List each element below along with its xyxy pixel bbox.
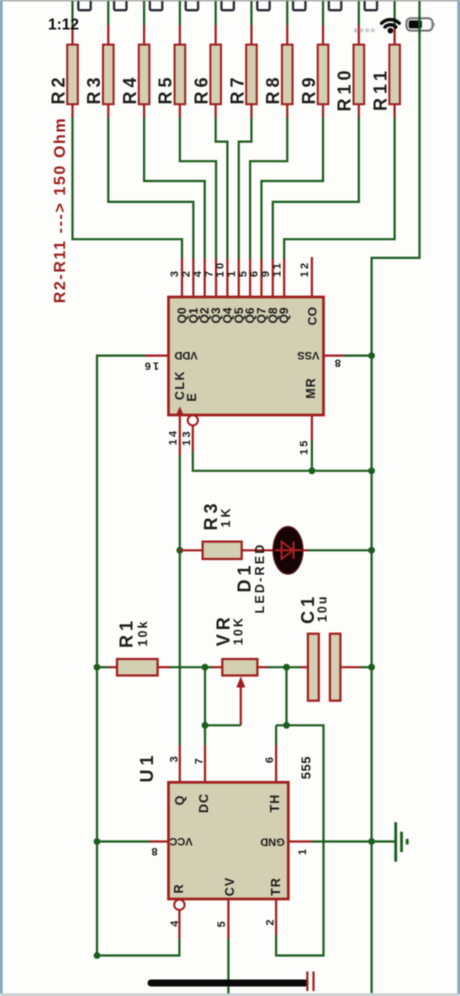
svg-text:R6: R6: [191, 73, 211, 104]
node left rail bottom: [94, 952, 101, 959]
svg-text:1: 1: [226, 269, 238, 277]
resistor R4: [120, 25, 150, 119]
resistor R2: [48, 25, 77, 119]
svg-text:5: 5: [237, 269, 249, 277]
pin Q8 stub (pin 9): [260, 259, 273, 298]
resistor R10: [335, 25, 365, 119]
node R1 VR DC junction: [202, 664, 209, 671]
wire LED6 to R6 top: [215, 0, 217, 26]
svg-text:CO: CO: [305, 307, 319, 326]
wire R1 to VR node: [170, 666, 205, 668]
resistor R6: [191, 25, 221, 119]
svg-text:6: 6: [249, 269, 261, 277]
wire VCC right rail: [372, 0, 420, 993]
wire VCC rail over battery: [418, 15, 420, 34]
ground: [372, 822, 408, 862]
pin Q1 stub (pin 2): [181, 259, 194, 298]
svg-text:R9: R9: [299, 73, 319, 104]
wire LED5 to R5 top: [179, 0, 181, 26]
svg-text:Q: Q: [173, 795, 187, 805]
svg-text:R2: R2: [48, 73, 68, 104]
terminal square T3: [114, 0, 126, 10]
wire LED10 to R10 top: [358, 0, 360, 26]
wire LED8 to R8 top: [286, 0, 288, 26]
wire R8 to Q6 pin: [250, 118, 287, 260]
svg-text:E: E: [185, 393, 199, 401]
svg-text:3: 3: [168, 756, 180, 762]
svg-text:10K: 10K: [231, 616, 245, 645]
svg-text:U1: U1: [137, 751, 157, 782]
pin TR 2 stub: [264, 899, 276, 935]
wire CLK to 555 Q: [179, 455, 181, 550]
resistor R7: [227, 25, 257, 119]
wire VR wiper to DC: [205, 724, 241, 726]
wire R5 to Q3 pin: [180, 118, 216, 260]
pin Q 3 stub: [168, 745, 180, 782]
resistor R9: [299, 25, 329, 119]
svg-text:R: R: [172, 884, 186, 893]
pin Q7 stub (pin 6): [249, 259, 262, 298]
wire E to MR to rail: [193, 452, 372, 471]
svg-text:R1: R1: [117, 617, 137, 648]
node wiper DC junction: [202, 722, 209, 729]
wire VCC to left rail: [97, 840, 150, 842]
node GND rail junction: [368, 838, 375, 845]
svg-text:16: 16: [142, 359, 159, 371]
svg-text:4: 4: [169, 920, 181, 927]
resistor R3 1K: [180, 499, 274, 559]
node left rail at VCC: [94, 838, 101, 845]
svg-text:3: 3: [169, 269, 181, 277]
status battery icon: [407, 18, 435, 30]
node E-MR rail junction: [368, 467, 375, 474]
wire R6 to Q4 pin: [216, 118, 228, 260]
svg-text:VCC: VCC: [169, 835, 192, 847]
pin Q9 stub (pin 11): [271, 259, 284, 298]
pin Q3 stub (pin 7): [203, 259, 216, 298]
svg-text:8: 8: [335, 356, 341, 368]
wire TH TR net: [276, 667, 323, 955]
svg-text:GND: GND: [260, 836, 285, 848]
pin E 13 bubble: [181, 415, 198, 453]
svg-text:4: 4: [192, 269, 204, 277]
pin CLK 14 stub: [167, 415, 179, 456]
status signal dots: [354, 28, 375, 32]
svg-text:TH: TH: [268, 794, 282, 813]
svg-text:5: 5: [216, 921, 228, 927]
timer IC U1 555 body: [137, 751, 314, 899]
svg-text:R7: R7: [227, 73, 247, 104]
status wifi icon: [382, 20, 400, 34]
wire VR right to C1: [267, 666, 301, 668]
svg-text:R2-R11 ---> 150 Ohm: R2-R11 ---> 150 Ohm: [52, 117, 69, 303]
pin VDD 16 stub: [142, 356, 168, 372]
pin CV 5 stub: [216, 899, 228, 940]
pin Q4 stub (pin 10): [215, 259, 228, 298]
LED D1 LED-RED: [234, 527, 308, 614]
pin Q0 stub (pin 3): [169, 259, 182, 298]
svg-text:14: 14: [167, 429, 179, 446]
node C1 rail junction: [368, 664, 375, 671]
svg-text:13: 13: [181, 429, 193, 446]
svg-text:VR: VR: [213, 613, 233, 646]
pin MR 15 stub: [298, 415, 312, 455]
terminal square T4: [150, 0, 162, 10]
wire R11 to Q9 pin: [284, 118, 394, 260]
terminal square T5: [186, 0, 198, 10]
pin GND 1 stub: [288, 842, 312, 856]
wire C1 to rail: [361, 666, 372, 668]
node VR C1 TH junction: [283, 664, 290, 671]
pin R 4 bubble: [169, 900, 185, 940]
capacitor C1 10u: [298, 593, 362, 701]
svg-text:8: 8: [151, 845, 157, 857]
pin VSS 8 stub: [324, 356, 346, 369]
svg-text:VSS: VSS: [297, 349, 319, 361]
wire DC pin7 vertical: [204, 667, 206, 745]
svg-text:TR: TR: [269, 877, 283, 896]
wire MR down: [311, 440, 313, 471]
wire LED9 to R9 top: [322, 0, 324, 26]
svg-text:R11: R11: [370, 67, 390, 111]
svg-text:R8: R8: [263, 73, 283, 104]
wire R4 to Q2 pin: [144, 118, 205, 260]
battery B1: [151, 972, 314, 992]
terminal square T6: [221, 0, 233, 10]
svg-text:2: 2: [264, 920, 276, 926]
wire LED3 to R3 top: [107, 0, 109, 26]
wire LED4 to R4 top: [143, 0, 145, 26]
svg-text:15: 15: [298, 438, 310, 455]
node VSS rail junction: [368, 352, 375, 359]
resistor R5: [156, 25, 186, 119]
node MR junction: [309, 467, 316, 474]
svg-text:7: 7: [203, 269, 215, 277]
wire CV down: [227, 939, 229, 996]
svg-text:555: 555: [299, 756, 314, 779]
svg-text:VDD: VDD: [174, 349, 197, 361]
svg-text:1: 1: [297, 849, 309, 855]
wire LED11 to R11 top: [394, 0, 396, 26]
wire GND to rail: [312, 840, 372, 842]
wire R10 to Q8 pin: [273, 118, 359, 260]
pin Q2 stub (pin 4): [192, 259, 205, 298]
counter IC U2 4017 body: [169, 297, 324, 415]
wire R9 to Q7 pin: [261, 118, 323, 260]
svg-text:R4: R4: [120, 73, 140, 104]
resistor R1 10k: [97, 617, 171, 676]
svg-text:2: 2: [181, 269, 193, 277]
svg-text:10: 10: [215, 261, 227, 278]
pin VCC 8 stub: [149, 842, 169, 858]
wire LED2 to R2 top: [71, 0, 73, 26]
wire LED7 to R7 top: [250, 0, 252, 26]
svg-text:10u: 10u: [316, 595, 330, 623]
svg-text:1K: 1K: [219, 506, 233, 528]
wire R to left rail bottom: [97, 939, 179, 956]
terminal square T7: [257, 0, 269, 10]
wire VDD to left rail: [97, 356, 146, 956]
potentiometer VR 10K: [212, 613, 268, 725]
svg-text:12: 12: [299, 261, 311, 278]
resistor R8: [263, 25, 293, 119]
wire D1 to rail: [308, 549, 372, 551]
resistor R11: [370, 25, 400, 119]
svg-text:R3: R3: [84, 73, 104, 104]
wire R7 to Q5 pin: [239, 118, 252, 260]
terminal square T8: [293, 0, 305, 10]
wire R3 to Q1 pin: [108, 118, 193, 260]
pin CO stub (pin 12): [299, 257, 312, 297]
svg-text:CV: CV: [223, 877, 237, 896]
node left rail at R1: [94, 664, 101, 671]
svg-text:10k: 10k: [136, 620, 150, 647]
terminal square T10: [365, 0, 377, 10]
node TH junction: [283, 722, 290, 729]
svg-text:7: 7: [194, 758, 206, 764]
svg-text:R5: R5: [156, 73, 176, 104]
svg-text:9: 9: [260, 269, 272, 277]
svg-text:11: 11: [271, 261, 283, 277]
pin TH 6 stub: [264, 745, 276, 782]
terminal square T9: [329, 0, 341, 10]
svg-text:Q9: Q9: [277, 307, 291, 323]
wire R2 to Q0 pin: [73, 118, 183, 260]
svg-text:R3: R3: [201, 499, 221, 530]
svg-text:MR: MR: [304, 377, 318, 398]
svg-text:LED-RED: LED-RED: [253, 543, 267, 614]
svg-text:DC: DC: [197, 793, 211, 813]
resistor R3: [84, 25, 114, 119]
terminal square T2: [78, 0, 90, 10]
svg-text:D1: D1: [234, 561, 254, 592]
pin Q6 stub (pin 5): [237, 259, 250, 298]
pin Q5 stub (pin 1): [226, 259, 239, 298]
svg-text:1:12: 1:12: [48, 17, 79, 34]
svg-text:R10: R10: [335, 66, 355, 111]
node CLK R3 junction: [176, 547, 183, 554]
node D1 rail junction: [368, 547, 375, 554]
wire VSS to right rail: [344, 355, 372, 357]
svg-text:6: 6: [264, 757, 276, 763]
pin DC 7 stub: [194, 745, 206, 782]
clock marker on CLK pin: [176, 407, 184, 416]
